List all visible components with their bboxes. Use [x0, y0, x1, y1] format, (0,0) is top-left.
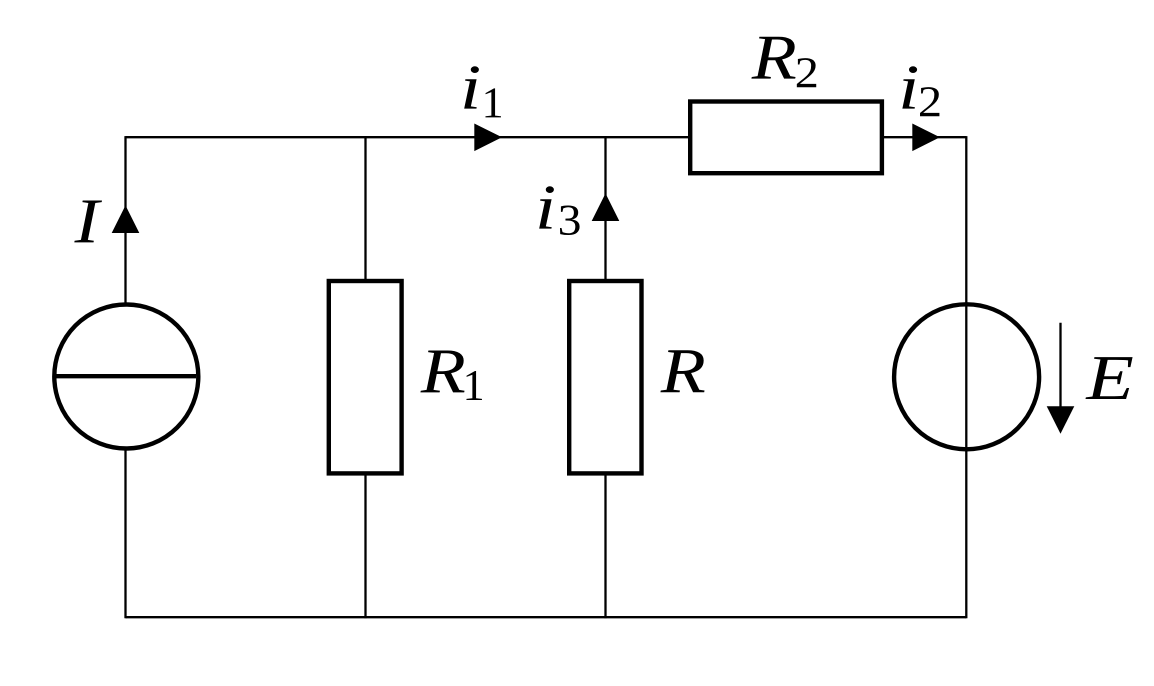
wire R branch upper — [604, 136, 606, 280]
label R — [660, 350, 704, 392]
wire bottom horizontal — [126, 616, 967, 618]
label i3 — [539, 186, 579, 235]
resistor R — [569, 281, 641, 473]
arrow i2 (right) — [912, 124, 940, 152]
arrow E head (down) — [1047, 406, 1075, 434]
wire left vertical upper — [124, 136, 126, 305]
voltage source E — [894, 304, 1039, 449]
label i2 — [902, 66, 939, 116]
wire top-left horizontal segment — [126, 136, 691, 138]
current source I — [54, 305, 198, 449]
wire R1 branch upper — [364, 136, 366, 280]
label I — [74, 200, 102, 242]
label i1 — [464, 66, 501, 117]
label R2 — [751, 37, 816, 88]
resistor R2 — [690, 102, 882, 174]
wire left vertical lower — [124, 449, 126, 619]
arrow E line (down) — [1059, 323, 1061, 415]
wire R1 branch lower — [364, 475, 366, 619]
arrow I (up) — [112, 205, 140, 233]
wire R branch lower — [604, 475, 606, 619]
label E — [1085, 357, 1132, 399]
wire right vertical (through voltage source) — [965, 136, 967, 618]
arrow i3 (up) — [592, 193, 620, 221]
resistor R1 — [329, 281, 402, 473]
arrow i1 (right) — [474, 124, 502, 152]
wire top-right horizontal segment — [882, 136, 966, 138]
label R1 — [420, 350, 482, 400]
